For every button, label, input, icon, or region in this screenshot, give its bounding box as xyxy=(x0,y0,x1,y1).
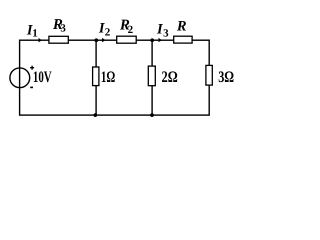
resistor 2ohm box xyxy=(148,66,155,86)
junction node top-2 xyxy=(94,38,98,42)
wire branch node2 vertical xyxy=(95,40,97,115)
junction node bottom-2 xyxy=(93,113,97,117)
svg-text:3: 3 xyxy=(60,23,66,35)
resistor 3ohm box xyxy=(206,65,212,85)
current arrow I2 xyxy=(102,38,105,42)
current arrow I3 xyxy=(159,38,162,42)
voltage source minus sign xyxy=(30,86,33,88)
current arrow I1 xyxy=(39,38,43,42)
svg-text:2: 2 xyxy=(128,24,134,36)
voltage source VS 10V circle xyxy=(10,68,30,88)
svg-text:R: R xyxy=(176,19,187,35)
resistor R box xyxy=(174,36,192,43)
svg-text:3: 3 xyxy=(163,27,169,39)
resistor R3 box xyxy=(49,36,68,43)
svg-text:10V: 10V xyxy=(33,69,52,86)
wire branch node3 vertical xyxy=(151,40,153,115)
resistor R2 box xyxy=(117,36,137,43)
svg-text:2: 2 xyxy=(105,26,111,38)
voltage source plus sign xyxy=(30,66,34,70)
junction node top-3 xyxy=(150,38,154,42)
svg-text:1Ω: 1Ω xyxy=(101,69,116,86)
svg-text:3Ω: 3Ω xyxy=(218,69,234,86)
wire outer loop xyxy=(20,40,210,115)
resistor 1ohm box xyxy=(93,67,99,86)
svg-text:2Ω: 2Ω xyxy=(162,69,178,86)
junction node bottom-3 xyxy=(150,113,154,117)
svg-text:1: 1 xyxy=(32,27,38,39)
